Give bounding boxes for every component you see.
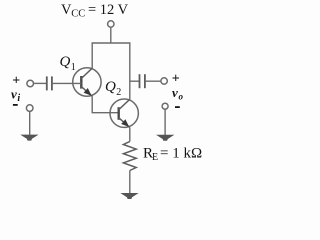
wire resistor to ground [129, 171, 131, 194]
svg-text:o: o [179, 91, 184, 101]
label Q1 [60, 54, 76, 73]
svg-text:Q: Q [60, 54, 71, 70]
wire Q2 emitter to resistor [129, 128, 131, 142]
output terminal + [161, 78, 167, 84]
svg-text:1: 1 [71, 62, 76, 73]
transistor Q2 [110, 99, 138, 128]
input terminal + [27, 80, 34, 87]
label vo [172, 85, 184, 102]
ground (output) [157, 135, 173, 140]
label VCC = 12 V [61, 2, 129, 20]
label RE = 1 kOhm [143, 146, 202, 164]
label - (output) [175, 106, 180, 108]
wire input to capacitor [34, 82, 47, 84]
ground (input) [22, 135, 38, 140]
wire collector rail to output capacitor [130, 80, 140, 82]
svg-text:Q: Q [105, 79, 116, 95]
output terminal - [162, 103, 168, 109]
svg-text:= 12 V: = 12 V [88, 2, 129, 18]
svg-text:i: i [17, 93, 20, 104]
transistor Q1 [73, 68, 101, 97]
svg-text:E: E [152, 152, 158, 163]
svg-text:2: 2 [116, 87, 121, 98]
wire VCC stub [110, 27, 112, 43]
resistor RE [123, 142, 136, 171]
svg-text:v: v [11, 86, 17, 101]
capacitor C2 (output coupling) [140, 74, 145, 88]
input terminal - [26, 105, 33, 112]
svg-text:CC: CC [71, 9, 85, 20]
wire Q1 emitter to Q2 base [92, 96, 119, 112]
svg-text:= 1 kΩ: = 1 kΩ [160, 146, 202, 162]
label Q2 [105, 79, 121, 98]
wire top rail [92, 43, 130, 99]
wire output lower to ground [164, 109, 166, 135]
ground (emitter) [122, 193, 138, 198]
wire input lower to ground [29, 112, 31, 136]
label vi [11, 86, 20, 104]
wire capacitor to output terminal [145, 80, 161, 82]
label - (input) [13, 104, 18, 106]
capacitor C1 (input coupling) [47, 76, 52, 90]
svg-text:v: v [172, 85, 178, 100]
VCC terminal [108, 21, 114, 27]
wire capacitor to Q1 base [52, 82, 81, 84]
